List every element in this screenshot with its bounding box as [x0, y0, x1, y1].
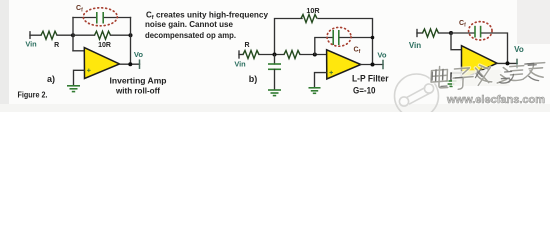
svg-text:Inverting Amp: Inverting Amp: [110, 75, 167, 85]
wire R to node (c): [439, 32, 452, 34]
capacitor C1 plates (b): [268, 64, 281, 69]
capacitor Cf (c): [475, 26, 481, 38]
ground non-inverting (b): [309, 88, 321, 94]
wire output (c): [497, 62, 517, 64]
input terminal (c): [416, 30, 418, 37]
wire feedback top right (b): [318, 19, 373, 65]
svg-text:creates unity high-frequency: creates unity high-frequency: [156, 10, 269, 19]
svg-text:Figure 2.: Figure 2.: [18, 90, 48, 100]
capacitor lower stem (b): [274, 69, 276, 89]
resistor R2 (b): [284, 51, 300, 59]
wire inverting input (a): [73, 50, 84, 52]
node Cf-output dot (b): [371, 36, 375, 40]
input terminal (a): [29, 32, 31, 39]
wire inverting input (c): [451, 33, 462, 50]
wire R2 to node B (b): [300, 54, 327, 56]
wire R1 to node A (b): [259, 54, 284, 56]
input terminal (b): [238, 51, 240, 58]
capacitor to ground stem (b): [274, 55, 276, 65]
svg-text:R: R: [244, 42, 249, 49]
resistor R (c): [423, 29, 439, 37]
svg-text:with roll-off: with roll-off: [115, 87, 160, 96]
svg-text:Vin: Vin: [234, 59, 246, 68]
wire output (b): [361, 64, 383, 66]
watermark circle logo: [395, 74, 439, 118]
svg-text:R: R: [54, 42, 59, 49]
svg-text:a): a): [47, 74, 55, 84]
capacitor Cf (a): [97, 12, 103, 24]
output terminal (b): [382, 61, 384, 69]
svg-text:Vo: Vo: [134, 50, 144, 59]
top-right grey patch: [517, 0, 550, 44]
wire Cf to output vertical (b): [340, 37, 373, 39]
background paper: [0, 0, 550, 112]
wire output (a): [120, 63, 140, 65]
ground (a): [67, 86, 80, 92]
wire 10R to right vertical (a): [111, 34, 131, 36]
svg-text:www.elecfans.com: www.elecfans.com: [446, 94, 545, 106]
node output dot (b): [371, 63, 375, 67]
op-amp U1 (a): [84, 48, 119, 79]
resistor 10R (b): [301, 15, 317, 23]
node B dot (b): [313, 53, 317, 57]
red dotted ellipse around Cf (b): [327, 27, 351, 46]
wire input to R (c): [417, 32, 423, 34]
ground (c): [446, 81, 457, 86]
wire node to Cf (c): [451, 32, 474, 34]
watermark wash over op-amp U3 bottom: [452, 70, 510, 86]
node A junction dot (a): [71, 33, 75, 37]
svg-text:10R: 10R: [306, 6, 320, 15]
svg-text:Vo: Vo: [514, 45, 524, 54]
node output dot (c): [506, 61, 510, 65]
svg-text:b): b): [249, 74, 258, 84]
resistor R1 (b): [243, 51, 259, 59]
resistor 10R (a): [95, 31, 111, 39]
resistor R (a): [41, 31, 57, 39]
bottom grey strip: [0, 104, 550, 112]
wire node to 10R (a): [73, 34, 95, 36]
svg-text:Vin: Vin: [409, 41, 421, 50]
output terminal (c): [516, 59, 518, 67]
plus mark non-inverting (a): [87, 69, 91, 73]
svg-text:Vin: Vin: [25, 40, 37, 49]
wire Cf branch vertical (b): [315, 38, 332, 55]
wire feedback right vertical (a): [130, 18, 132, 65]
op-amp U3 (c): [462, 46, 498, 80]
node input dot (c): [449, 31, 453, 35]
node output dot (a): [128, 62, 132, 66]
plus mark non-inverting (b): [329, 71, 333, 75]
wire non-inverting input (b): [315, 73, 327, 87]
wire feedback top right segment (a): [105, 17, 131, 19]
svg-text:L-P Filter: L-P Filter: [352, 73, 389, 83]
output terminal (a): [139, 60, 141, 68]
wire R to node (a): [57, 34, 73, 36]
capacitor Cf (b): [333, 30, 339, 45]
svg-text:Vo: Vo: [377, 51, 387, 60]
ground below capacitor (b): [268, 90, 281, 96]
op-amp U2 (b): [327, 50, 361, 79]
red dotted ellipse around Cf (a): [83, 8, 117, 26]
wire non-inverting input (c): [451, 73, 462, 80]
svg-text:G=-10: G=-10: [353, 85, 376, 95]
node junction dot right (a): [129, 33, 133, 37]
node A dot (b): [273, 53, 277, 57]
wire feedback top left segment (a): [73, 17, 96, 19]
wire feedback left vertical (a): [72, 18, 74, 51]
wire Cf to right vertical (c): [482, 33, 508, 63]
wire input to R (b): [239, 54, 243, 56]
svg-text:10R: 10R: [98, 42, 111, 49]
wire non-inverting input (a): [74, 70, 85, 85]
wire feedback top left (b): [275, 19, 303, 55]
red dotted ellipse around Cf (c): [469, 22, 492, 40]
wire input to R (a): [30, 34, 41, 36]
watermark chinese characters: [431, 59, 545, 91]
svg-text:noise gain. Cannot use: noise gain. Cannot use: [145, 20, 234, 29]
left grey texture strip: [0, 0, 9, 112]
svg-text:decompensated op amp.: decompensated op amp.: [145, 31, 236, 40]
